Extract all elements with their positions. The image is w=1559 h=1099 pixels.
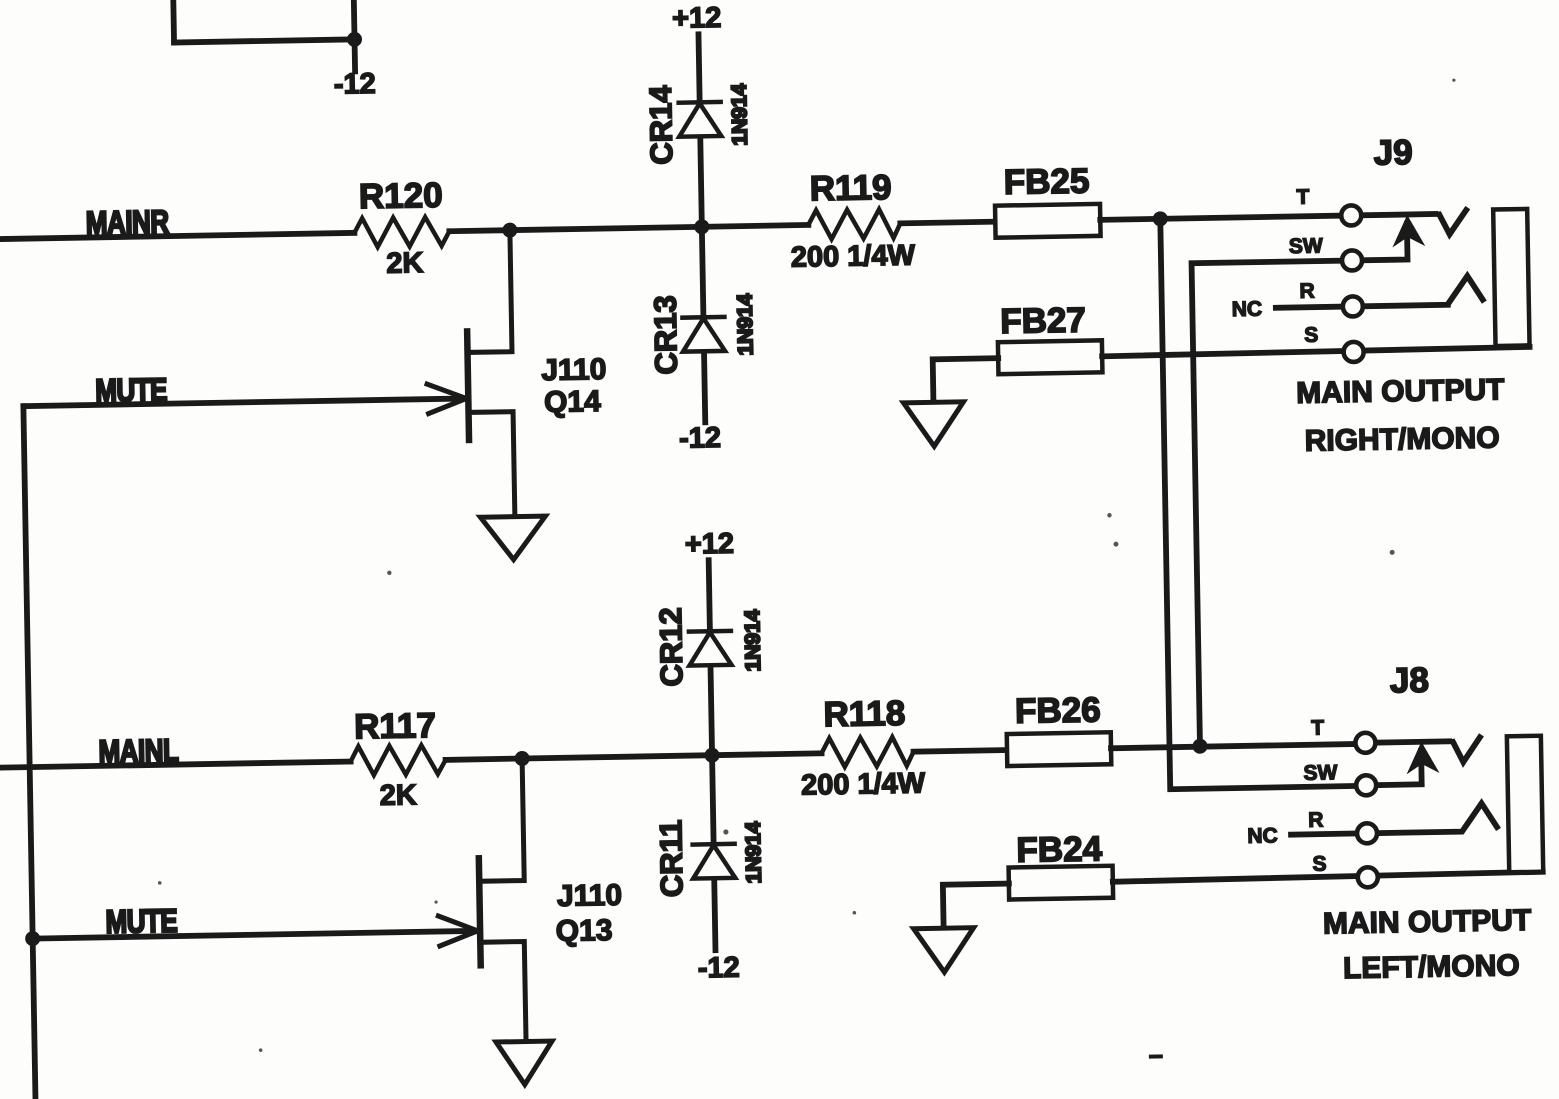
resistor R120 <box>354 217 449 248</box>
wire left mute vertical <box>23 406 35 1099</box>
svg-text:R: R <box>1308 809 1324 832</box>
svg-text:NC: NC <box>1247 824 1278 848</box>
ferrite bead FB25 <box>995 204 1101 238</box>
svg-text:Q14: Q14 <box>544 385 602 419</box>
J8 SW arm and arrow <box>1375 751 1422 785</box>
diode CR12 <box>689 631 732 666</box>
ground (Q13 source) <box>496 1041 553 1085</box>
transistor Q13 (J110) <box>436 759 527 1043</box>
ferrite bead FB24 <box>1009 866 1114 900</box>
wire top-left box left vertical <box>170 0 177 42</box>
wire MAINR from R119 to FB25 <box>900 222 995 224</box>
svg-text:200 1/4W: 200 1/4W <box>801 767 926 801</box>
wire CR14/CR13 vertical chain <box>698 34 705 422</box>
ground (Q14 source) <box>480 516 546 560</box>
transistor Q13 gate wire (MUTE) <box>33 931 477 939</box>
svg-text:-12: -12 <box>679 422 721 455</box>
connector J9 body <box>1493 209 1529 346</box>
resistor R119 <box>808 209 900 240</box>
J8 NC wire <box>1291 833 1358 834</box>
J9 ring terminal circle <box>1343 296 1363 316</box>
ferrite bead FB27 <box>998 340 1103 374</box>
svg-text:S: S <box>1312 853 1326 876</box>
svg-text:FB24: FB24 <box>1016 829 1103 869</box>
svg-text:SW: SW <box>1289 234 1323 258</box>
node junction Q14 drain on MAINR <box>502 223 517 238</box>
svg-text:FB25: FB25 <box>1003 162 1089 202</box>
wire MAINR net horizontal <box>0 233 354 239</box>
svg-text:2K: 2K <box>379 779 417 812</box>
node junction J9 tip / vertical 1 <box>1153 211 1168 226</box>
svg-text:MUTE: MUTE <box>95 372 167 410</box>
node junction top-left <box>347 32 362 47</box>
ground (FB27) <box>903 402 964 447</box>
ground (FB24) <box>914 928 975 973</box>
wire MAINR from R120 to R119 <box>449 225 808 231</box>
svg-text:R119: R119 <box>809 168 891 208</box>
svg-text:FB26: FB26 <box>1015 690 1101 730</box>
wire MAINR from FB25 to J9 tip <box>1100 216 1342 220</box>
node junction Q13 drain on MAINL <box>514 751 529 766</box>
J8 ring contact <box>1376 803 1497 833</box>
J8 tip terminal circle <box>1355 733 1375 753</box>
node junction MUTE lower tee <box>25 931 40 946</box>
wire FB24 to ground <box>943 884 1010 929</box>
svg-text:+12: +12 <box>672 2 722 35</box>
J9 SW arm and arrow <box>1360 224 1407 260</box>
svg-text:-12: -12 <box>334 68 376 101</box>
svg-text:T: T <box>1296 186 1309 209</box>
svg-text:LEFT/MONO: LEFT/MONO <box>1343 949 1520 985</box>
J8 SW terminal circle <box>1356 775 1376 795</box>
diode CR14 <box>679 102 722 137</box>
svg-text:R: R <box>1299 280 1315 303</box>
J9 SW terminal circle <box>1342 250 1362 270</box>
diode CR11 <box>693 844 736 879</box>
svg-text:T: T <box>1311 717 1324 740</box>
wire stray mark bottom right <box>1151 1054 1161 1058</box>
svg-text:R117: R117 <box>354 706 436 746</box>
wire MAINL from FB26 to J8 tip <box>1111 744 1356 748</box>
svg-text:R120: R120 <box>359 176 443 216</box>
wire J8 sleeve line <box>1113 872 1543 882</box>
resistor R117 <box>350 745 445 776</box>
node junction CR11/CR12 on MAINL <box>704 748 719 763</box>
wire vertical 1 (J9 tip to J8 SW) <box>1160 216 1357 790</box>
J9 tip contact <box>1360 210 1466 236</box>
node junction CR13/CR14 on MAINR <box>694 219 709 234</box>
svg-text:SW: SW <box>1303 761 1337 785</box>
J9 sleeve terminal circle <box>1343 342 1363 362</box>
svg-text:CR14: CR14 <box>643 84 679 165</box>
svg-text:1N914: 1N914 <box>734 293 758 356</box>
ferrite bead FB26 <box>1007 732 1112 766</box>
svg-text:2K: 2K <box>386 247 424 280</box>
J9 ring contact <box>1361 276 1482 307</box>
wire MAINL net horizontal <box>0 762 351 768</box>
wire speck artifacts <box>144 79 1472 1054</box>
J9 tip terminal circle <box>1341 205 1361 225</box>
svg-text:CR12: CR12 <box>653 607 689 687</box>
resistor R118 <box>821 737 913 768</box>
svg-text:MAIN OUTPUT: MAIN OUTPUT <box>1323 904 1532 941</box>
svg-text:S: S <box>1304 324 1318 347</box>
svg-text:CR11: CR11 <box>653 819 689 897</box>
svg-text:J110: J110 <box>541 353 607 387</box>
connector J8 body <box>1507 736 1543 873</box>
diode CR13 <box>682 317 725 352</box>
svg-text:+12: +12 <box>685 528 735 561</box>
svg-text:J9: J9 <box>1373 133 1413 173</box>
svg-text:NC: NC <box>1232 298 1263 322</box>
wire top-left box bottom horizontal <box>174 39 354 42</box>
J8 ring terminal circle <box>1357 823 1377 843</box>
wire vertical 2 (J9 SW to J8 tip) <box>1192 261 1357 746</box>
node junction J8 tip / vertical 2 <box>1192 739 1207 754</box>
svg-text:J8: J8 <box>1390 661 1430 701</box>
svg-text:RIGHT/MONO: RIGHT/MONO <box>1304 421 1500 457</box>
svg-text:1N914: 1N914 <box>741 609 765 672</box>
svg-text:FB27: FB27 <box>1000 301 1086 341</box>
svg-text:J110: J110 <box>557 879 623 913</box>
wire MAINL from R117 to R118 <box>446 753 822 760</box>
wire MAINL from R118 to FB26 <box>914 750 1007 752</box>
wire J9 sleeve line <box>1102 347 1529 356</box>
svg-text:200 1/4W: 200 1/4W <box>791 240 916 274</box>
J8 sleeve terminal circle <box>1358 867 1378 887</box>
svg-text:1N914: 1N914 <box>742 821 766 884</box>
transistor Q14 gate wire (MUTE) <box>23 398 465 406</box>
svg-text:CR13: CR13 <box>648 295 684 375</box>
transistor Q14 (J110) <box>424 230 514 518</box>
svg-text:-12: -12 <box>698 952 740 985</box>
svg-text:R118: R118 <box>823 694 905 734</box>
wire CR12/CR11 vertical chain <box>709 560 716 950</box>
J9 NC wire <box>1276 307 1344 308</box>
svg-text:1N914: 1N914 <box>728 83 752 146</box>
wire top-left box right vertical to -12 <box>354 0 355 71</box>
J8 tip contact <box>1374 737 1480 763</box>
svg-text:MAIN OUTPUT: MAIN OUTPUT <box>1296 373 1505 410</box>
wire FB27 to ground <box>933 358 999 402</box>
svg-text:Q13: Q13 <box>555 914 612 948</box>
